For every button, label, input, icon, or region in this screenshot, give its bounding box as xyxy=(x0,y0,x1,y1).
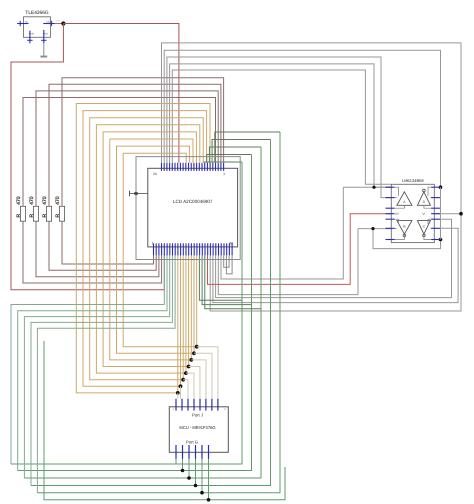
wire pale staircase junction J1 to MCU Port J pin xyxy=(177,393,179,399)
wire orange net2 LCD top pin to left loop to MCU junction xyxy=(83,111,207,387)
node junction J3 xyxy=(181,378,185,382)
wire green net3 bottom and right vertical xyxy=(24,147,261,478)
U1 bottom pins x30 xyxy=(153,243,155,255)
wire orange net3 LCD bottom pin down to junction xyxy=(182,255,184,379)
voltage regulator U2 TLE4266G xyxy=(24,17,51,38)
node junction V- on right vertical xyxy=(459,212,463,216)
wire small U hook LCD bottom pin27 to pin29 xyxy=(224,255,229,267)
svg-text:LM6134BIM: LM6134BIM xyxy=(402,178,424,183)
node junction Port G5 xyxy=(200,491,204,495)
svg-text:vcc: vcc xyxy=(56,20,60,23)
wire pale staircase junction J6 to MCU Port J pin xyxy=(191,360,206,399)
wire gray horizontal into LM left at 187 xyxy=(343,186,391,188)
node junction Port G2 xyxy=(181,469,185,473)
U3 internal hook wires D xyxy=(428,187,431,196)
U4 Port J pins x8 xyxy=(175,399,177,411)
svg-text:TLE4266G: TLE4266G xyxy=(25,10,48,16)
svg-text:OUT: OUT xyxy=(47,20,53,23)
U4 Port G pins x6 xyxy=(175,445,177,459)
wire orange net1 LCD bottom pin down to junction xyxy=(177,255,179,393)
wire gray net4 LCD top pin21 to LM top-left pin xyxy=(170,64,392,187)
node junction at 373,228.6 xyxy=(371,227,374,230)
wire R3 top to LCD top pin xyxy=(49,84,221,206)
wire LM left lower horizontal xyxy=(358,228,391,230)
wire green net3 LCD bottom pin to left side xyxy=(24,255,169,478)
wire gray wrap around LCD xyxy=(136,157,240,260)
node junction Port G6 xyxy=(207,498,211,502)
wire R1 bottom to LCD bottom pin xyxy=(23,221,162,283)
wire green net2 LCD bottom pin to left side xyxy=(18,255,167,470)
LCD module U1 box xyxy=(148,168,238,247)
U2 pin OUT xyxy=(43,23,54,25)
wire green net3 top entry to LCD top pin xyxy=(209,147,261,163)
wire OUT pin to node VCC xyxy=(55,23,64,25)
svg-text:MCU - MB91F376G: MCU - MB91F376G xyxy=(179,425,215,430)
wire pale staircase junction J8 to MCU Port J pin xyxy=(197,347,218,399)
wire V+ net from LM left to LCD bottom pin27 xyxy=(208,214,392,285)
wire green net1 LCD bottom pin to left side xyxy=(11,255,164,464)
wire orange net6 LCD top pin to left loop to MCU junction xyxy=(110,139,193,360)
U3 left pins xyxy=(386,186,395,188)
wire gray net3 LCD top pin22 to LM left pin2 xyxy=(167,57,391,198)
wire R3 bottom to LCD bottom pin xyxy=(49,221,156,270)
U3 internal hook wires A xyxy=(395,187,399,196)
op-amp U3D triangle with inverting circle xyxy=(417,192,430,206)
wire V- from LM to right vertical xyxy=(434,213,461,215)
wire gray net1 LCD top pin24 around right side to LCD bottom pin23 xyxy=(162,43,462,311)
resistor R1 470 xyxy=(20,206,25,221)
node junction J8 xyxy=(195,345,199,349)
wire gray net LM right output B to LCD bottom pin25 xyxy=(216,219,452,297)
wire R2 bottom to LCD bottom pin xyxy=(36,221,159,277)
svg-text:V-: V- xyxy=(423,212,426,216)
node junction LM top-right xyxy=(439,185,443,189)
node junction U1 left pin xyxy=(134,192,137,195)
wire green net5 LCD bottom pin to left side xyxy=(37,255,175,492)
wire orange net1 LCD top pin to left loop to MCU junction xyxy=(76,104,210,393)
wire green net6 partial bottom loop xyxy=(44,341,285,500)
wire Port G pin6 down to outer green line xyxy=(208,459,210,500)
wire R4 top to LCD top pin xyxy=(62,78,224,207)
U1 left side pin xyxy=(130,193,148,195)
wire orange net6 LCD bottom pin down to junction xyxy=(190,255,192,360)
node junction J7 xyxy=(192,351,196,355)
node junction J2 xyxy=(179,384,183,388)
U2 pin GND1 xyxy=(29,31,31,44)
wire Port G pin1 down to green line xyxy=(175,459,177,464)
wire Port G pin4 down to green line xyxy=(195,459,197,486)
wire green net5 top entry to LCD top pin xyxy=(215,132,280,163)
wire dark-green hook LCD bottom pin21 xyxy=(205,255,261,308)
wire orange net3 LCD top pin to left loop to MCU junction xyxy=(90,118,204,380)
wire VCC to LCD top pin 17 (right-down) xyxy=(63,24,178,163)
svg-text:470: 470 xyxy=(16,196,22,205)
wire green net5 bottom and right vertical xyxy=(37,132,280,493)
wire orange net7 LCD top pin to left loop to MCU junction xyxy=(117,146,195,353)
MCU U4 box xyxy=(169,407,228,453)
wire U2 GND2 to ground xyxy=(43,43,45,56)
node junction J1 xyxy=(176,391,180,395)
U1 top pins x24 xyxy=(161,163,163,171)
svg-text:470: 470 xyxy=(55,196,61,205)
resistor R2 470 xyxy=(33,206,38,221)
wire orange net7 LCD bottom pin down to junction xyxy=(193,255,195,353)
wire orange net8 LCD bottom pin down to junction xyxy=(196,255,198,346)
wire green net2 top entry to LCD top pin xyxy=(207,155,252,163)
wire R2 top to LCD top pin xyxy=(36,91,218,206)
wire green net1 top entry to LCD top pin xyxy=(204,161,242,164)
svg-text:GND: GND xyxy=(43,32,49,35)
wire orange net5 LCD bottom pin down to junction xyxy=(188,255,190,366)
svg-text:R: R xyxy=(55,214,61,218)
wire green net4 top entry to LCD top pin xyxy=(212,140,270,163)
node junction J6 xyxy=(189,358,193,362)
wire orange net8 LCD top pin to left loop to MCU junction xyxy=(123,153,197,347)
svg-text:1: 1 xyxy=(223,172,225,176)
wire green net4 bottom and right vertical xyxy=(31,140,271,486)
wire Port G pin2 down to green line xyxy=(182,459,184,471)
svg-text:24: 24 xyxy=(153,172,157,176)
wire R4 bottom to LCD bottom pin xyxy=(62,221,154,264)
wire LM right bus vertical xyxy=(440,187,442,239)
wire green net1 bottom and right vertical xyxy=(11,162,242,464)
resistor R3 470 xyxy=(46,206,51,221)
node junction Port G3 xyxy=(187,476,191,480)
op-amp U3A triangle xyxy=(397,192,412,206)
svg-text:470: 470 xyxy=(29,196,35,205)
wire Port G pin3 down to green line xyxy=(188,459,190,478)
op-amp IC U3 LM6134BIM box xyxy=(391,184,434,242)
wire pale staircase junction J7 to MCU Port J pin xyxy=(194,353,212,399)
resistor R4 470 xyxy=(59,206,64,221)
svg-text:Port G: Port G xyxy=(186,440,198,445)
svg-text:R: R xyxy=(29,214,35,218)
svg-text:R: R xyxy=(16,214,22,218)
wire VCC left branch down left side to LCD bottom pin 5 xyxy=(11,24,164,290)
wire small U hook LCD bottom pin28 to pin30 xyxy=(226,255,232,274)
node junction at 374,187 xyxy=(372,186,375,189)
wire LCD bottom pin26 to LM lower-left xyxy=(218,229,358,295)
wire green net2 bottom and right vertical xyxy=(18,155,252,471)
svg-text:470: 470 xyxy=(42,196,48,205)
node junction J4 xyxy=(184,371,188,375)
svg-text:V+: V+ xyxy=(395,212,399,216)
wire green net4 LCD bottom pin to left side xyxy=(31,255,172,485)
wire orange net4 LCD bottom pin down to junction xyxy=(185,255,187,373)
wire gray net2 LCD top pin23 to LM right bus and under-LM loop xyxy=(164,50,440,248)
U2 pin IN xyxy=(17,23,28,25)
wire orange net5 LCD top pin to left loop to MCU junction xyxy=(103,132,196,367)
wire pale staircase junction J2 to MCU Port J pin xyxy=(180,386,182,399)
U2 pin GND2 xyxy=(43,30,45,43)
op-amp U3B triangle with inverting circle xyxy=(397,221,412,235)
wire gray net LM right output C to LCD bottom pin24 xyxy=(213,228,458,302)
ground xyxy=(40,56,47,58)
U3 internal hook wires B xyxy=(395,219,399,224)
U3 right pins xyxy=(431,186,440,188)
wire pale staircase junction J4 to MCU Port J pin xyxy=(186,373,194,399)
U3 internal hook wires C xyxy=(428,219,431,224)
wire pale staircase junction J3 to MCU Port J pin xyxy=(183,380,188,399)
svg-text:R: R xyxy=(42,214,48,218)
wire dark-green hook LCD bottom pin20 xyxy=(202,255,251,304)
svg-text:GND: GND xyxy=(29,32,35,35)
node junction LM bottom-right xyxy=(439,238,443,242)
wire R1 top to LCD top pin xyxy=(23,98,216,207)
wire gray net5 LCD top pin20 to LM top edge xyxy=(172,70,391,184)
svg-text:LCD A2C00046907: LCD A2C00046907 xyxy=(173,199,213,204)
op-amp U3C triangle with inverting circle xyxy=(417,221,430,235)
svg-text:IN: IN xyxy=(25,20,28,23)
node VCC junction xyxy=(61,21,65,25)
node junction J5 xyxy=(187,365,191,369)
node junction Port G4 xyxy=(194,484,198,488)
wire pale staircase junction J5 to MCU Port J pin xyxy=(189,367,200,399)
svg-text:Port J: Port J xyxy=(192,413,203,418)
wire Port G pin5 down to green line xyxy=(201,459,203,493)
wire dark-green hook LCD bottom pin19 xyxy=(199,255,242,300)
wire orange net2 LCD bottom pin down to junction xyxy=(180,255,182,386)
wire gray net4 branch from junction down to LCD bottom pin28 xyxy=(221,187,343,279)
wire orange net4 LCD top pin to left loop to MCU junction xyxy=(96,125,199,373)
